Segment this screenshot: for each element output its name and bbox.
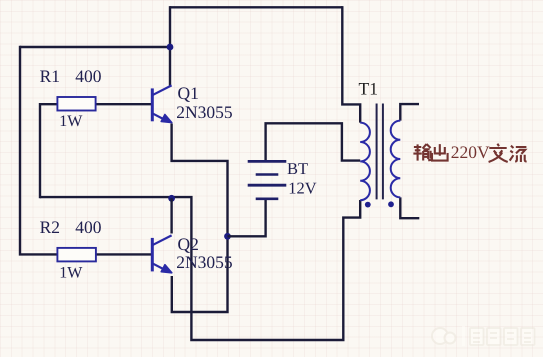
svg-text:BT: BT [287, 159, 308, 178]
wire vertical x=170 Q1 collector [169, 6, 171, 85]
char liu (AC-2) [510, 146, 527, 162]
wire vertical x=342 down to T1 primary top lead [342, 6, 360, 123]
svg-text:1W: 1W [59, 265, 83, 282]
transformer T1 secondary winding (right, arcs bulge left) [391, 121, 401, 198]
polarity dot primary [365, 202, 371, 208]
svg-text:T1: T1 [359, 79, 378, 99]
transformer T1 core [377, 104, 383, 200]
svg-text:220V: 220V [451, 142, 490, 162]
wire y=198 to Q2 collector node, down x=191.4, bottom y=340, up x=343 to T1 primary bottom [40, 197, 360, 340]
svg-text:1W: 1W [59, 113, 83, 130]
char shu (output-1) [413, 144, 431, 161]
wire R2 right lead to Q2 base [96, 253, 151, 255]
svg-text:R1: R1 [40, 66, 60, 86]
char jiao (AC-1) [489, 144, 508, 162]
wire battery plus to T1 center tap [266, 123, 361, 161]
svg-text:400: 400 [75, 217, 102, 237]
transistor Q2 [152, 235, 172, 272]
wire top horizontal from Q1 collector to T1 primary top [170, 6, 342, 8]
svg-text:400: 400 [75, 66, 102, 86]
resistor R1 body [57, 97, 95, 111]
wire T1 secondary top stub [400, 104, 419, 121]
label output 220V AC (Chinese) [413, 144, 447, 161]
wire left rail x=20 down to R2 left lead [20, 46, 57, 255]
junction dot node Q2 collector [168, 195, 175, 202]
wire Q2 collector vertical [170, 198, 172, 233]
wire T1 secondary bottom stub [400, 197, 419, 218]
svg-text:2N3055: 2N3055 [176, 102, 233, 122]
wire R1 left lead down x=40 to y=198 [40, 104, 57, 198]
svg-text:R2: R2 [40, 217, 60, 237]
battery BT plates [248, 161, 287, 198]
svg-text:Q2: Q2 [178, 234, 199, 254]
wire R1 right lead to Q1 base [96, 103, 152, 105]
wire battery minus lead [228, 199, 266, 237]
watermark wukong logo [432, 326, 465, 346]
svg-text:2N3055: 2N3055 [176, 252, 233, 272]
watermark wukong text [470, 328, 535, 345]
char chu (output-2) [432, 144, 448, 161]
junction dot common emitter / battery minus [224, 233, 231, 240]
transistor Q1 [152, 85, 172, 122]
resistor R2 body [57, 248, 96, 262]
wire Q1 emitter to common node down x=227.5 to y=312 and to Q2 emitter [172, 124, 228, 313]
polarity dot secondary [388, 201, 394, 207]
transformer T1 primary winding (left, arcs bulge right) [360, 123, 370, 201]
wire horizontal y=47 feedback to left rail [20, 46, 170, 48]
svg-text:12V: 12V [288, 179, 317, 198]
svg-text:Q1: Q1 [178, 83, 199, 103]
junction dot node Q1 collector [167, 44, 174, 51]
